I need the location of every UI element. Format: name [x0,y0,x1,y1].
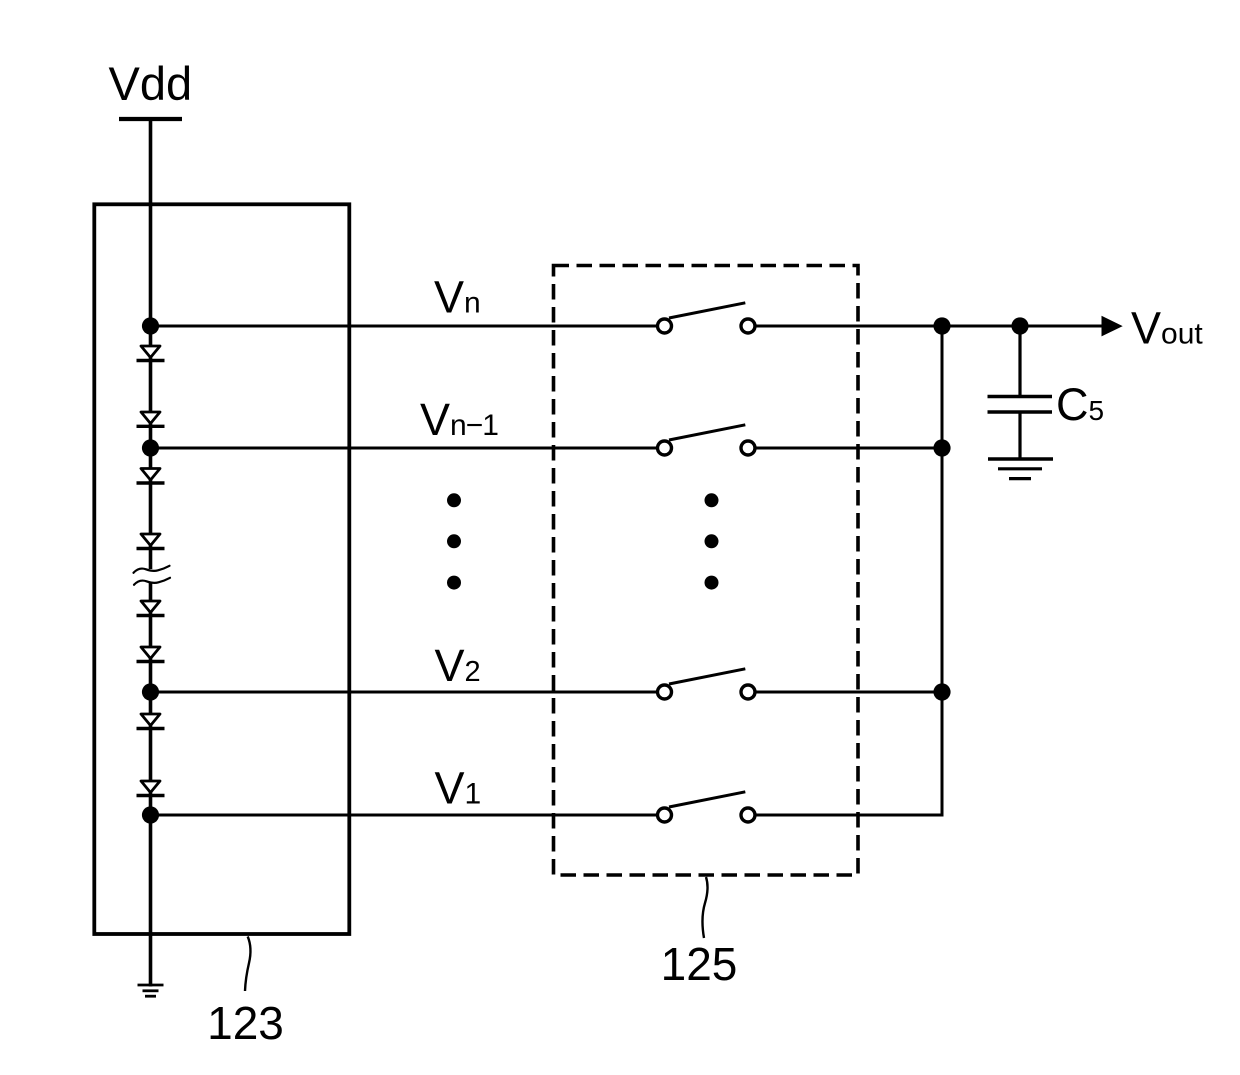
switch SW-n-1 [658,425,756,455]
output arrow [1102,316,1123,337]
ellipsis dots left column [447,493,461,589]
diode 4 [137,534,165,549]
node Vn-1 tap [142,439,159,456]
switch SW-1 [658,792,756,822]
wire Vn-1 left [151,447,657,450]
diode 8 [137,781,165,796]
wire Vn-1 right [757,447,943,450]
node V1 tap [142,806,159,823]
diode 5 [137,601,165,616]
block 125 dashed box [554,266,859,876]
diode 3 [137,469,165,484]
wire Vn right [757,325,1102,328]
wire diode chain upper segment [149,326,153,569]
node Vn tap [142,317,159,334]
node V2 tap [142,683,159,700]
ground at chain bottom [138,985,164,996]
diode 7 [137,714,165,729]
switch SW-2 [658,669,756,699]
power rail Vdd bar [119,117,182,121]
leader squiggle for 123 [245,937,250,992]
leader squiggle for 125 [702,877,707,938]
node bus at Vn [933,317,950,334]
break mark squiggle on chain [134,566,171,585]
capacitor C5 bottom lead wire [1018,412,1021,459]
wire V2 right [757,691,943,694]
wire V1 right and bus riser [757,326,943,815]
wire diode chain lower segment [149,582,153,987]
capacitor C5 top lead wire [1018,326,1021,397]
capacitor C5 plates [988,397,1053,413]
svg-text:123: 123 [207,997,284,1049]
switch SW-n [658,303,756,333]
diode 6 [137,647,165,662]
ellipsis dots inside box column [705,493,719,589]
node bus at Vn-1 [933,439,950,456]
node capacitor tap [1011,317,1028,334]
diode 2 [137,412,165,426]
node bus at V2 [933,683,950,700]
ground below capacitor [988,459,1053,479]
wire V2 left [151,691,657,694]
block 123 rectangle [94,204,349,934]
wire Vdd stem [149,119,153,326]
wire Vn left [151,325,657,328]
wire V1 left [151,814,657,817]
svg-text:Vdd: Vdd [109,57,193,110]
diode 1 [137,346,165,361]
svg-text:125: 125 [661,938,738,990]
